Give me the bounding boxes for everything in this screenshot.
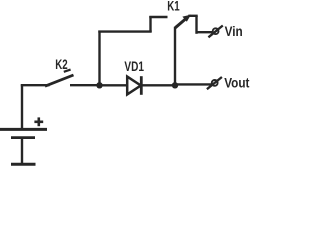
svg-text:VD1: VD1 bbox=[124, 58, 144, 74]
battery polarity + sign bbox=[34, 117, 43, 126]
svg-text:Vin: Vin bbox=[225, 23, 243, 39]
wire to Vin terminal bbox=[197, 31, 213, 33]
wire down to Vin level bbox=[195, 16, 197, 34]
wire upper branch horizontal bbox=[98, 30, 151, 32]
wire node A riser up bbox=[98, 31, 100, 87]
terminal Vin bbox=[208, 26, 222, 38]
wire node A to diode anode bbox=[100, 84, 128, 86]
wire step up to K1 left contact bbox=[149, 16, 151, 32]
wire diode cathode to node B bbox=[141, 84, 175, 86]
wire K1 pivot riser down to node B bbox=[174, 27, 176, 85]
terminal Vout bbox=[207, 77, 222, 89]
svg-text:K2: K2 bbox=[55, 58, 68, 73]
ground chassis bar bbox=[11, 163, 36, 166]
switch K2 blade bbox=[45, 70, 74, 87]
wire battery to K2 left contact bbox=[21, 84, 50, 86]
wire K1 right contact top bbox=[188, 15, 197, 17]
diode VD1 bbox=[127, 76, 141, 95]
wire negative plate down bbox=[21, 138, 23, 164]
switch K1 blade with arrowhead bbox=[175, 15, 191, 28]
wire K1 left contact bbox=[149, 16, 167, 18]
wire K2 right contact to node A bbox=[70, 84, 101, 86]
node A junction dot bbox=[96, 82, 102, 88]
wire battery positive riser bbox=[21, 84, 23, 128]
battery B1 positive plate bbox=[0, 128, 47, 131]
node B junction dot bbox=[172, 82, 178, 88]
wire node B to Vout terminal bbox=[175, 83, 212, 85]
svg-text:Vout: Vout bbox=[224, 74, 250, 90]
svg-text:K1: K1 bbox=[167, 0, 180, 14]
battery B1 negative plate bbox=[11, 136, 35, 139]
